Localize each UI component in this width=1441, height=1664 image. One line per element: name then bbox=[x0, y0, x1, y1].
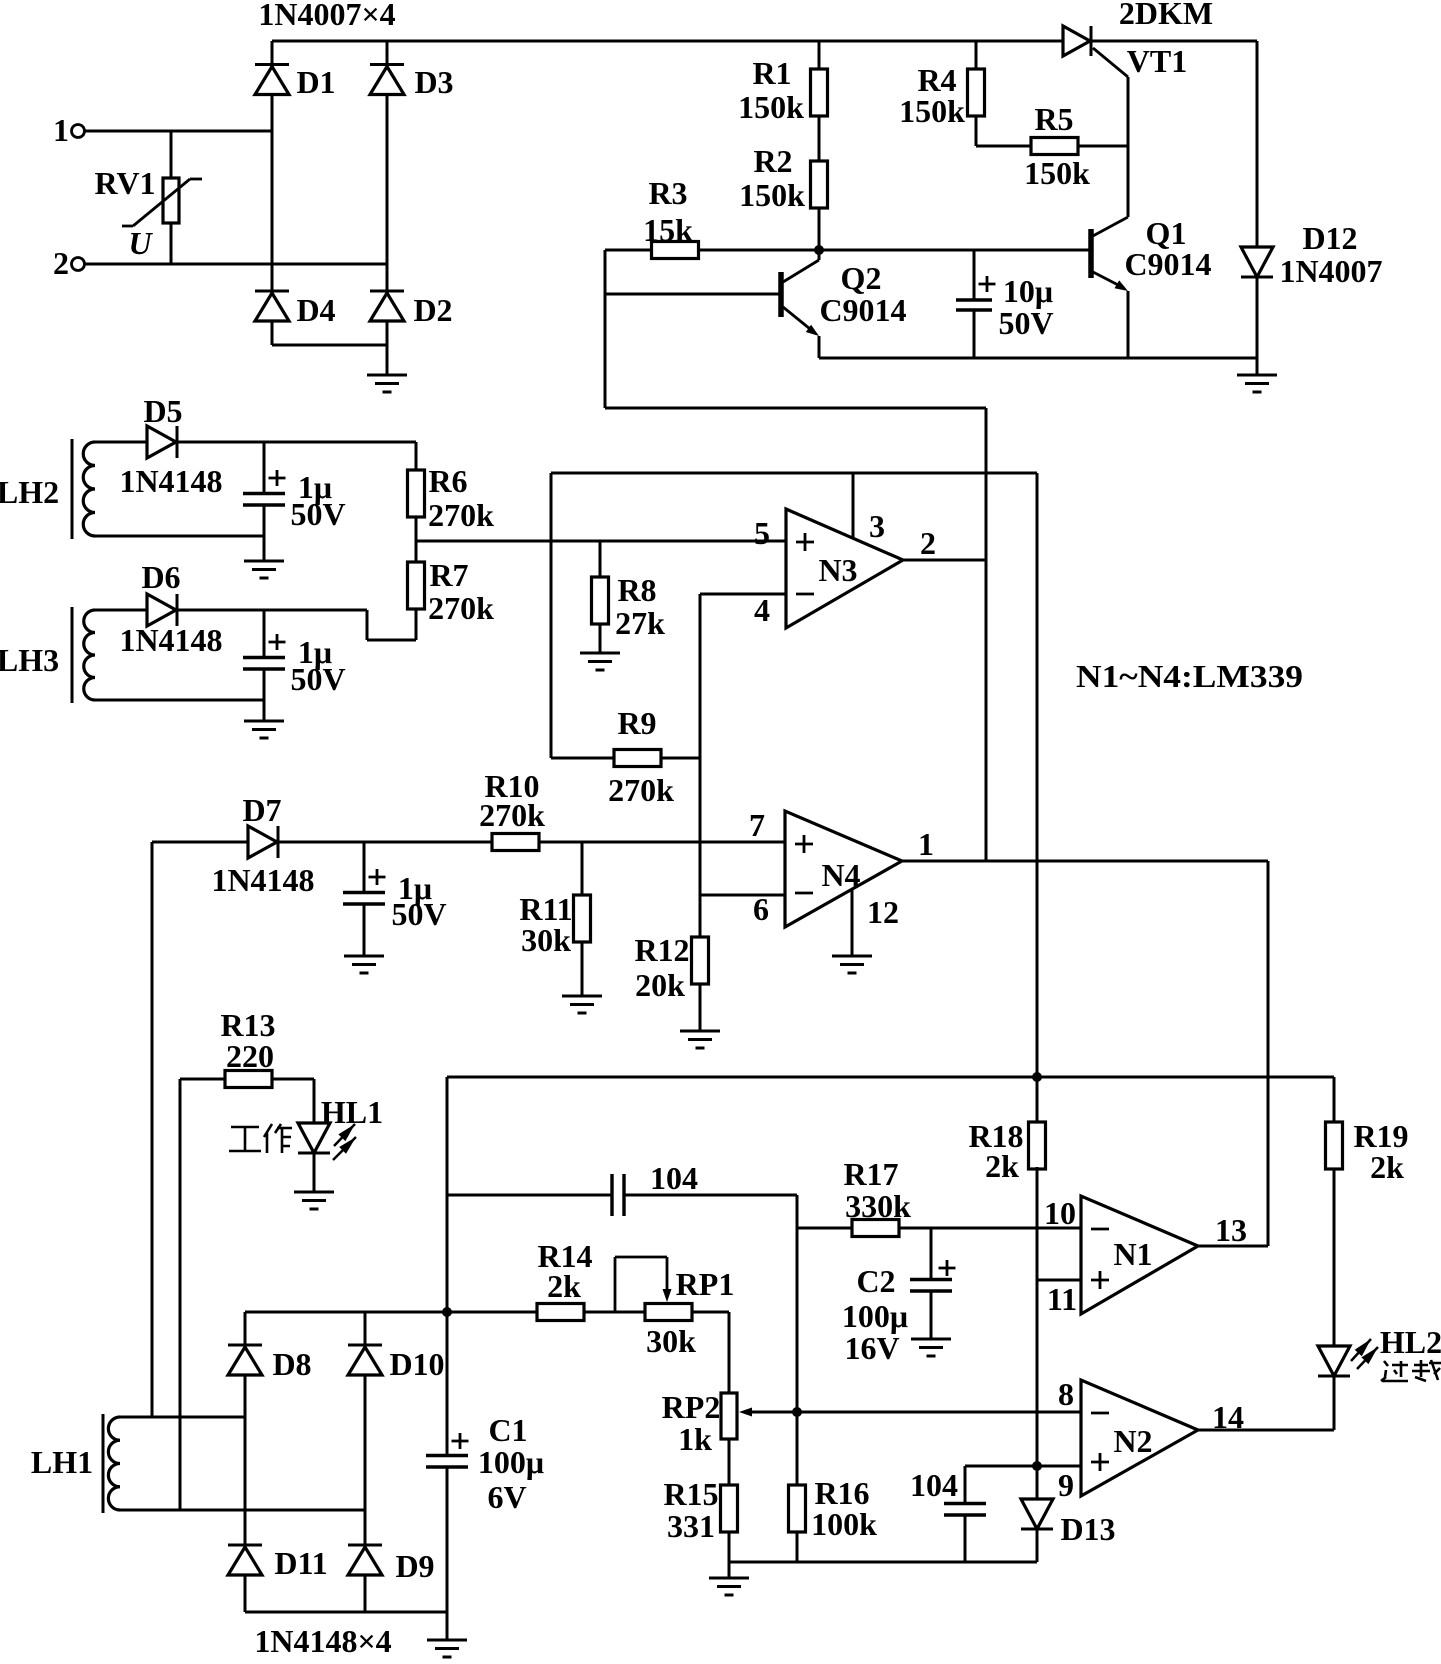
wire R1-R2 bbox=[818, 116, 821, 161]
node Q2 collector junction bbox=[814, 245, 824, 255]
svg-text:RV1: RV1 bbox=[94, 165, 155, 201]
wire HL2 bottom stem bbox=[1333, 1376, 1336, 1430]
wire 104 bottom cap bottom stem bbox=[964, 1515, 967, 1562]
wire D13 bottom stem bbox=[1036, 1529, 1039, 1562]
svg-text:1: 1 bbox=[918, 826, 934, 862]
capacitor 1u LH2 polarity bbox=[269, 470, 286, 486]
svg-text:150k: 150k bbox=[1024, 155, 1090, 191]
resistor R5 bbox=[1031, 138, 1078, 155]
wire RP1 right bbox=[691, 1311, 729, 1314]
ground bottom net bbox=[709, 1578, 749, 1595]
svg-text:D7: D7 bbox=[242, 792, 281, 828]
wire N4out-N1out vertical bbox=[1267, 861, 1270, 1246]
svg-text:R15: R15 bbox=[663, 1476, 718, 1512]
wire top rail left bbox=[272, 40, 1063, 43]
wire drop x797 bbox=[796, 1195, 799, 1485]
ground R11 bbox=[562, 996, 602, 1013]
svg-text:Q2: Q2 bbox=[841, 260, 882, 296]
svg-text:3: 3 bbox=[869, 508, 885, 544]
wire HL1 bottom stem bbox=[313, 1153, 316, 1191]
svg-text:100μ: 100μ bbox=[842, 1298, 908, 1334]
wire pin12 stub bbox=[851, 889, 854, 955]
wire R12 bottom stem bbox=[699, 984, 702, 1030]
wire R19 top stem bbox=[1333, 1077, 1336, 1122]
svg-text:6: 6 bbox=[753, 891, 769, 927]
capacitor 104 top bbox=[612, 1174, 624, 1216]
svg-text:RP2: RP2 bbox=[662, 1389, 721, 1425]
svg-text:R7: R7 bbox=[429, 557, 468, 593]
transistor Q1 bbox=[1091, 217, 1128, 291]
wire D7 left bbox=[152, 841, 248, 844]
wire N3 output bbox=[903, 559, 986, 562]
potentiometer RP1 body bbox=[645, 1304, 692, 1321]
svg-text:C9014: C9014 bbox=[819, 292, 906, 328]
wire R8 bottom stem bbox=[599, 624, 602, 652]
wire R13 left drop bbox=[179, 1079, 182, 1510]
wire LH3 bottom bbox=[95, 699, 264, 702]
node RP2 junction bbox=[792, 1407, 802, 1417]
terminal 2 bbox=[72, 258, 85, 271]
svg-text:LH1: LH1 bbox=[31, 1444, 93, 1480]
resistor R14 bbox=[537, 1304, 584, 1321]
wire R8 top stem bbox=[599, 541, 602, 577]
resistor R4 bbox=[968, 69, 985, 116]
svg-text:N2: N2 bbox=[1113, 1423, 1152, 1459]
svg-text:50V: 50V bbox=[998, 305, 1053, 341]
svg-text:270k: 270k bbox=[428, 590, 494, 626]
svg-text:6V: 6V bbox=[487, 1479, 526, 1515]
svg-text:C9014: C9014 bbox=[1124, 246, 1211, 282]
wire pin4 bbox=[700, 593, 786, 596]
diode D5 bbox=[147, 426, 177, 458]
wire RP2 to R15 bbox=[728, 1438, 731, 1485]
wire supply drop x1037 upper bbox=[1036, 473, 1039, 1122]
svg-text:331: 331 bbox=[667, 1508, 715, 1544]
LED HL2 arrows bbox=[1351, 1339, 1378, 1369]
svg-text:HL1: HL1 bbox=[321, 1094, 383, 1130]
wire cap LH2 top stem bbox=[263, 442, 266, 493]
svg-text:R6: R6 bbox=[428, 463, 467, 499]
thyristor VT1 bbox=[1063, 26, 1128, 77]
capacitor 10u plates bbox=[956, 300, 992, 310]
wire R11 top stem bbox=[581, 842, 584, 895]
svg-text:2k: 2k bbox=[985, 1148, 1019, 1184]
wire N1 output pin13 bbox=[1198, 1245, 1268, 1248]
wire RP2 top stem bbox=[728, 1312, 731, 1393]
capacitor C1 bbox=[426, 1456, 468, 1468]
svg-text:D13: D13 bbox=[1060, 1511, 1115, 1547]
potentiometer RP2 wiper arrow bbox=[739, 1408, 752, 1417]
resistor R12 bbox=[692, 937, 709, 984]
svg-text:D10: D10 bbox=[389, 1346, 444, 1382]
wire LH3 top bbox=[95, 609, 147, 612]
wire pin4/pin6 vertical bbox=[699, 594, 702, 937]
label guozai (CJK) bbox=[1381, 1360, 1441, 1381]
svg-text:C1: C1 bbox=[488, 1412, 527, 1448]
wire 104 cap top left bbox=[447, 1194, 612, 1197]
wire D7 to R10 bbox=[278, 841, 492, 844]
wire cap LH3 bottom stem bbox=[263, 669, 266, 720]
wire right rail bbox=[1256, 41, 1259, 247]
wire R10 to N4 bbox=[539, 841, 785, 844]
wire VT1 gate drop bbox=[1127, 77, 1130, 217]
svg-text:2k: 2k bbox=[547, 1268, 581, 1304]
wire R3 to junction bbox=[698, 249, 819, 252]
wire 104 cap top right bbox=[624, 1194, 797, 1197]
capacitor 10u polarity bbox=[979, 276, 996, 292]
wire R4 top stem bbox=[975, 41, 978, 69]
diode D2 bbox=[370, 291, 404, 321]
svg-text:20k: 20k bbox=[635, 967, 685, 1003]
svg-text:104: 104 bbox=[910, 1467, 958, 1503]
node C1 junction bbox=[442, 1307, 452, 1317]
svg-text:D2: D2 bbox=[413, 292, 452, 328]
diode D6 bbox=[147, 594, 177, 626]
wire R16 bottom stem bbox=[796, 1532, 799, 1562]
svg-text:150k: 150k bbox=[739, 177, 805, 213]
diode D3 bbox=[370, 65, 404, 95]
resistor R10 bbox=[492, 834, 539, 851]
svg-text:1N4148×4: 1N4148×4 bbox=[254, 1623, 391, 1659]
capacitor C2 bbox=[910, 1280, 952, 1292]
svg-text:R17: R17 bbox=[843, 1156, 898, 1192]
resistor R18 bbox=[1029, 1122, 1046, 1169]
wire R7 bottom jog bbox=[367, 609, 416, 640]
ground D7 cap bbox=[344, 956, 384, 973]
varistor RV1 bbox=[122, 178, 202, 226]
wire bridge bottom bbox=[272, 344, 387, 347]
wire LH1 top bbox=[120, 1416, 245, 1419]
wire long left drop D7 bbox=[151, 842, 154, 1417]
svg-text:2k: 2k bbox=[1370, 1149, 1404, 1185]
capacitor 1u LH3 polarity bbox=[269, 634, 286, 650]
svg-text:50V: 50V bbox=[290, 661, 345, 697]
op-amp N2 bbox=[1081, 1380, 1198, 1496]
wire cap10u top stem bbox=[973, 250, 976, 300]
diode D10 bbox=[348, 1345, 382, 1375]
capacitor 1u D7 bbox=[343, 893, 385, 905]
wire Q2base-N3out link bbox=[605, 408, 986, 861]
diode D13 bbox=[1021, 1499, 1053, 1529]
svg-text:D4: D4 bbox=[296, 292, 335, 328]
wire x1037 mid vertical bbox=[1036, 1167, 1039, 1466]
wire bridge2 bottom bbox=[245, 1611, 447, 1614]
resistor R1 bbox=[811, 69, 828, 116]
svg-text:16V: 16V bbox=[844, 1330, 899, 1366]
diode D11 bbox=[228, 1545, 262, 1575]
wire C1 ground stem bbox=[446, 1612, 449, 1639]
wire left drop x605 bbox=[604, 250, 607, 408]
svg-text:150k: 150k bbox=[899, 93, 965, 129]
svg-text:12: 12 bbox=[867, 894, 899, 930]
svg-text:D5: D5 bbox=[143, 393, 182, 429]
op-amp N3 bbox=[786, 509, 903, 628]
resistor R13 bbox=[225, 1071, 272, 1088]
wire D6 to jog bbox=[177, 609, 367, 612]
op-amp N1 bbox=[1081, 1196, 1198, 1314]
LED HL1 arrows bbox=[333, 1124, 356, 1160]
resistor R3 bbox=[652, 242, 699, 259]
svg-text:30k: 30k bbox=[521, 922, 571, 958]
wire Q2 emitter stem bbox=[818, 336, 821, 358]
inductor LH3 bbox=[72, 607, 95, 703]
diode D12 bbox=[1241, 247, 1273, 277]
wire R19 to HL2 bbox=[1333, 1169, 1336, 1346]
svg-text:27k: 27k bbox=[615, 605, 665, 641]
svg-text:2: 2 bbox=[920, 525, 936, 561]
svg-text:330k: 330k bbox=[845, 1188, 911, 1224]
LED HL1 bbox=[298, 1123, 330, 1153]
svg-text:R1: R1 bbox=[752, 55, 791, 91]
svg-text:R5: R5 bbox=[1034, 101, 1073, 137]
wire 104 bottom cap top stem bbox=[964, 1466, 967, 1503]
svg-text:N1~N4:LM339: N1~N4:LM339 bbox=[1076, 658, 1303, 694]
svg-text:11: 11 bbox=[1047, 1281, 1077, 1317]
svg-text:1N4148: 1N4148 bbox=[119, 622, 222, 658]
svg-text:HL2: HL2 bbox=[1380, 1324, 1441, 1360]
svg-text:D9: D9 bbox=[395, 1548, 434, 1584]
svg-text:RP1: RP1 bbox=[676, 1266, 735, 1302]
wire Q1 emitter stem bbox=[1127, 291, 1130, 358]
wire R5 right bbox=[1078, 145, 1128, 148]
svg-text:R9: R9 bbox=[617, 705, 656, 741]
svg-text:4: 4 bbox=[754, 592, 770, 628]
capacitor C2 polarity bbox=[939, 1260, 956, 1276]
capacitor 104 bottom bbox=[944, 1504, 986, 1516]
wire R17 left bbox=[797, 1227, 852, 1230]
LED HL2 bbox=[1318, 1346, 1350, 1376]
wire R13 right bbox=[272, 1078, 314, 1081]
wire HL1 top stem bbox=[313, 1079, 316, 1123]
inductor LH1 bbox=[103, 1414, 120, 1513]
svg-text:U: U bbox=[128, 225, 153, 261]
svg-text:270k: 270k bbox=[428, 497, 494, 533]
svg-text:15k: 15k bbox=[643, 212, 693, 248]
wire C1 bottom stem bbox=[446, 1467, 449, 1612]
node pin9 junction bbox=[1032, 1461, 1042, 1471]
wire R14 to RP1 bbox=[584, 1311, 645, 1314]
resistor R11 bbox=[574, 895, 591, 942]
wire N4 output pin1 bbox=[902, 860, 1268, 863]
svg-text:D3: D3 bbox=[414, 64, 453, 100]
wire right ground stem bbox=[1256, 358, 1259, 374]
wire R2 bottom bbox=[818, 208, 821, 250]
ground LH2 bbox=[244, 561, 284, 578]
svg-text:270k: 270k bbox=[608, 772, 674, 808]
wire input 1 bbox=[85, 130, 272, 133]
wire RV1 top bbox=[170, 131, 173, 178]
wire pin3 stub bbox=[852, 473, 855, 539]
wire R14 left bbox=[447, 1311, 537, 1314]
wire C2 bottom stem bbox=[930, 1291, 933, 1338]
capacitor C1 polarity bbox=[452, 1433, 469, 1449]
wire bridge right column bbox=[386, 41, 389, 345]
transistor Q2 bbox=[781, 250, 819, 336]
svg-text:N1: N1 bbox=[1113, 1236, 1152, 1272]
svg-text:LH3: LH3 bbox=[0, 642, 59, 678]
svg-text:10: 10 bbox=[1044, 1195, 1076, 1231]
wire R6 top stem bbox=[415, 442, 418, 470]
diode D7 bbox=[248, 826, 278, 858]
wire input 2 bbox=[85, 263, 387, 266]
wire R17 to N1 bbox=[899, 1227, 1081, 1230]
wire D12 bottom bbox=[1256, 277, 1259, 358]
svg-text:270k: 270k bbox=[479, 797, 545, 833]
resistor R9 bbox=[614, 750, 661, 767]
wire cap D7 top stem bbox=[363, 842, 366, 892]
node supply junction bbox=[1032, 1072, 1042, 1082]
wire D5 to R6 bbox=[177, 441, 416, 444]
svg-text:C2: C2 bbox=[856, 1263, 895, 1299]
wire C1 top stem bbox=[446, 1312, 449, 1455]
wire bridge2 right column bbox=[364, 1312, 367, 1612]
terminal 1 bbox=[72, 125, 85, 138]
svg-text:VT1: VT1 bbox=[1127, 43, 1187, 79]
potentiometer RP1 wiper bbox=[615, 1257, 672, 1312]
svg-text:13: 13 bbox=[1215, 1212, 1247, 1248]
diode D1 bbox=[255, 65, 289, 95]
capacitor 1u D7 polarity bbox=[369, 869, 386, 885]
wire R4 bottom bbox=[975, 116, 978, 146]
wire R6 bottom bbox=[415, 517, 418, 541]
diode D8 bbox=[228, 1345, 262, 1375]
ground N4 pin12 bbox=[832, 956, 872, 973]
svg-text:100k: 100k bbox=[811, 1506, 877, 1542]
svg-text:8: 8 bbox=[1058, 1376, 1074, 1412]
svg-text:1N4148: 1N4148 bbox=[211, 862, 314, 898]
wire R9 right bbox=[661, 757, 700, 760]
svg-text:30k: 30k bbox=[646, 1323, 696, 1359]
op-amp N4 bbox=[785, 811, 902, 927]
wire R11 bottom stem bbox=[581, 942, 584, 995]
wire LH2 bottom bbox=[95, 535, 264, 538]
svg-text:104: 104 bbox=[650, 1160, 698, 1196]
inductor LH2 bbox=[72, 439, 95, 539]
svg-text:50V: 50V bbox=[391, 896, 446, 932]
svg-text:7: 7 bbox=[749, 807, 765, 843]
capacitor 1u LH2 bbox=[243, 494, 285, 506]
wire feedback left drop bbox=[550, 473, 553, 758]
wire pin11 bbox=[1037, 1279, 1081, 1282]
wire RV1 bottom bbox=[170, 223, 173, 264]
svg-text:N4: N4 bbox=[821, 857, 860, 893]
wire base rail Q1 bbox=[819, 249, 1091, 252]
svg-text:220: 220 bbox=[226, 1038, 274, 1074]
svg-text:1N4007×4: 1N4007×4 bbox=[258, 0, 395, 32]
wire top rail right bbox=[1091, 40, 1257, 43]
wire R4-R5 bbox=[976, 145, 1031, 148]
svg-text:9: 9 bbox=[1058, 1467, 1074, 1503]
wire D13 top stem bbox=[1036, 1466, 1039, 1499]
svg-text:D11: D11 bbox=[274, 1545, 327, 1581]
svg-text:100μ: 100μ bbox=[478, 1444, 544, 1480]
svg-text:150k: 150k bbox=[738, 89, 804, 125]
svg-text:50V: 50V bbox=[290, 496, 345, 532]
svg-text:R12: R12 bbox=[634, 932, 689, 968]
svg-text:10μ: 10μ bbox=[1003, 273, 1053, 309]
svg-text:1k: 1k bbox=[678, 1421, 712, 1457]
svg-text:D12: D12 bbox=[1302, 220, 1357, 256]
ground R8 bbox=[580, 653, 620, 670]
potentiometer RP2 body bbox=[721, 1393, 737, 1439]
resistor R8 bbox=[592, 577, 609, 624]
resistor R19 bbox=[1326, 1122, 1343, 1169]
wire cap D7 bottom stem bbox=[363, 904, 366, 955]
svg-text:1N4007: 1N4007 bbox=[1279, 253, 1382, 289]
svg-text:D6: D6 bbox=[141, 559, 180, 595]
diode D9 bbox=[348, 1545, 382, 1575]
wire R15 bottom stem bbox=[728, 1532, 731, 1562]
wire LH1 bottom bbox=[120, 1509, 365, 1512]
svg-text:2: 2 bbox=[53, 245, 69, 281]
wire bottom ground stem bbox=[728, 1562, 731, 1577]
svg-text:R2: R2 bbox=[753, 143, 792, 179]
wire box left vertical bbox=[446, 1077, 449, 1312]
wire LH2 top bbox=[95, 441, 147, 444]
svg-text:D8: D8 bbox=[272, 1346, 311, 1382]
wire pin5 net bbox=[416, 540, 786, 543]
wire bottom rail bbox=[819, 357, 1257, 360]
wire N2 output pin14 bbox=[1198, 1429, 1334, 1432]
wire bridge2 top bbox=[245, 1311, 447, 1314]
wire R13 left bbox=[180, 1078, 225, 1081]
wire bridge2 left column bbox=[244, 1312, 247, 1612]
wire pin6 bbox=[700, 894, 785, 897]
resistor R2 bbox=[811, 161, 828, 208]
ground bridge bbox=[367, 375, 407, 392]
ground C1 bbox=[427, 1640, 467, 1657]
wire R9 left bbox=[551, 757, 614, 760]
ground LH3 bbox=[244, 721, 284, 738]
svg-text:5: 5 bbox=[754, 515, 770, 551]
wire RP2 wiper line bbox=[744, 1411, 797, 1414]
wire R1 top stem bbox=[818, 41, 821, 69]
wire supply to LEDs bbox=[447, 1076, 1334, 1079]
resistor R6 bbox=[408, 470, 425, 517]
wire supply horizontal bbox=[551, 472, 1037, 475]
svg-text:D1: D1 bbox=[296, 64, 335, 100]
wire cap10u bottom stem bbox=[973, 310, 976, 358]
wire cap LH2 bottom stem bbox=[263, 505, 266, 560]
wire bridge left column bbox=[271, 41, 274, 345]
ground HL1 bbox=[294, 1192, 334, 1209]
capacitor 1u LH3 bbox=[243, 658, 285, 670]
wire R3 left bbox=[605, 249, 651, 252]
svg-text:R3: R3 bbox=[648, 175, 687, 211]
svg-text:N3: N3 bbox=[818, 552, 857, 588]
svg-text:LH2: LH2 bbox=[0, 474, 59, 510]
wire pin8 bbox=[744, 1411, 1081, 1414]
svg-text:1N4148: 1N4148 bbox=[119, 463, 222, 499]
wire R7 top stem bbox=[415, 541, 418, 562]
ground right rail bbox=[1237, 375, 1277, 392]
resistor R16 bbox=[789, 1485, 806, 1532]
resistor R15 bbox=[721, 1485, 738, 1532]
ground C2 bbox=[911, 1339, 951, 1356]
wire Q2 base bbox=[605, 293, 781, 296]
svg-text:R8: R8 bbox=[617, 572, 656, 608]
wire bridge ground stem bbox=[386, 345, 389, 374]
wire bottom net bbox=[729, 1561, 1037, 1564]
wire cap LH3 top stem bbox=[263, 610, 266, 657]
wire C2 top stem bbox=[930, 1228, 933, 1279]
ground R12 bbox=[680, 1031, 720, 1048]
resistor R7 bbox=[408, 562, 425, 609]
svg-text:1: 1 bbox=[53, 112, 69, 148]
label gongzuo (CJK) bbox=[229, 1124, 292, 1153]
diode D4 bbox=[255, 291, 289, 321]
svg-text:14: 14 bbox=[1212, 1399, 1244, 1435]
